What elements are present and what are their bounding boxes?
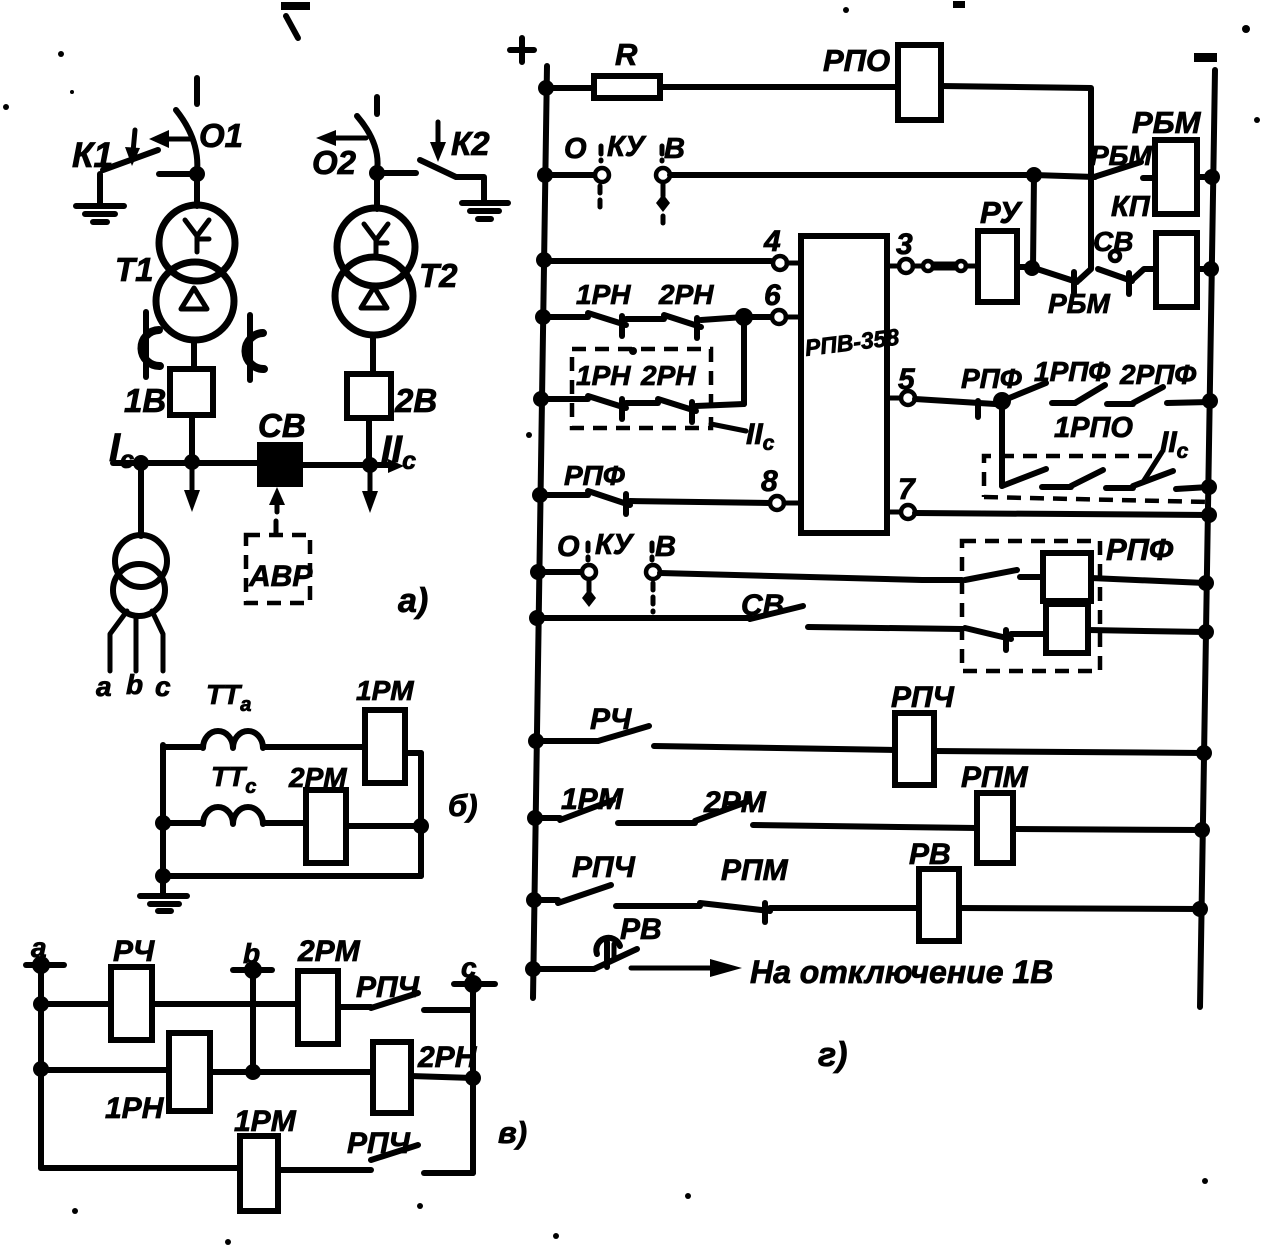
svg-text:Т1: Т1 [115, 251, 154, 288]
wire pin5 to RPF [915, 399, 995, 417]
svg-text:2РМ: 2РМ [703, 786, 767, 819]
rail negative [1200, 70, 1215, 1007]
contact 2PH dashed row [626, 399, 744, 422]
contact RPCh row3 [278, 1145, 473, 1173]
wire row1 mid [152, 1001, 298, 1007]
bus I section [113, 460, 257, 466]
bottom return wire [163, 873, 421, 879]
wire row1 left [41, 1001, 111, 1007]
wire O1 to T1 [194, 174, 200, 206]
svg-text:РБМ: РБМ [1090, 140, 1153, 171]
svg-text:КП: КП [1111, 191, 1151, 223]
contact 2RPF [1107, 387, 1163, 404]
label a) [398, 582, 428, 620]
relay coil 1PM v [240, 1136, 278, 1211]
svg-text:Т2: Т2 [419, 257, 458, 294]
label CB aux [1093, 226, 1133, 257]
wire 2RPF to rail [1167, 393, 1218, 409]
node rail rpch [526, 892, 542, 908]
wire b vertical [250, 970, 256, 1072]
svg-text:1РПО: 1РПО [1054, 412, 1133, 444]
node junction O1 [159, 166, 205, 182]
relay coil RPF2 [1046, 604, 1088, 653]
node b terminal [233, 961, 272, 979]
contact CB no [537, 606, 962, 629]
contact RPF1 self [965, 570, 1043, 580]
label RV coil [909, 838, 951, 871]
relay coil RBM [1155, 140, 1197, 214]
svg-text:РВ: РВ [620, 913, 662, 946]
contact RPCh g2 [534, 885, 700, 906]
wire incoming line 2 [374, 97, 380, 114]
node rail row3 [536, 252, 552, 268]
svg-text:В: В [655, 531, 676, 563]
label 1PH dashed [576, 360, 631, 391]
relay coil KP [1156, 233, 1197, 307]
wire pin7 to rail [915, 507, 1217, 523]
node rail row2 [537, 167, 553, 183]
label RPCh g2 [572, 851, 636, 884]
label RPV-358 [803, 324, 900, 361]
disconnector O2 [316, 116, 378, 171]
label RPF row8 [564, 460, 625, 491]
label 2PM [288, 762, 347, 793]
wire RPF2 to rail [1088, 624, 1214, 640]
svg-text:3: 3 [896, 228, 913, 261]
label RBM coil [1132, 105, 1202, 140]
svg-text:1В: 1В [124, 382, 166, 419]
svg-text:2РН: 2РН [640, 360, 696, 391]
transformer T1 [156, 205, 235, 340]
node bus dot 2B [362, 457, 378, 473]
label 2B [394, 382, 437, 419]
dashed box RPF [962, 541, 1100, 671]
wire RV to rail [959, 901, 1208, 917]
svg-text:О: О [564, 133, 587, 165]
ground b-circuit [140, 876, 187, 911]
pin 3 [887, 228, 913, 273]
label minus [1194, 53, 1217, 62]
pin 7 [887, 473, 916, 519]
label 1PH [105, 1092, 165, 1125]
wire TTc to 2PM [263, 820, 306, 826]
relay coil 2PM v [298, 971, 338, 1044]
node a row2 [33, 1061, 49, 1077]
label b [126, 669, 143, 700]
label KU2 [595, 529, 635, 561]
label 1PM v [234, 1105, 297, 1138]
dashed box 1PH2PH [572, 349, 711, 428]
disconnector O1 [149, 110, 197, 172]
svg-text:1РМ: 1РМ [561, 783, 624, 816]
relay coil 1PM [365, 710, 405, 783]
svg-text:1РМ: 1РМ [356, 675, 414, 706]
breaker 2B [347, 374, 391, 418]
contact 2PM g [695, 801, 977, 828]
label IIc pointer [711, 418, 775, 455]
svg-text:1РМ: 1РМ [234, 1105, 297, 1138]
arrow CB to ABP [269, 487, 285, 533]
svg-text:РПЧ: РПЧ [356, 971, 420, 1004]
label V ku2 [655, 531, 676, 563]
feeder arrow on bus I [184, 463, 200, 512]
pin 4 [763, 225, 801, 270]
arrow to trip [631, 959, 742, 977]
svg-text:b: b [243, 938, 260, 969]
svg-text:b: b [126, 669, 143, 700]
wire row2 mid [210, 1069, 373, 1075]
svg-text:2РН: 2РН [658, 279, 714, 310]
svg-text:РПМ: РПМ [961, 761, 1029, 794]
svg-text:7: 7 [898, 473, 916, 506]
transformer T2 [335, 208, 415, 335]
svg-text:a: a [96, 671, 112, 702]
svg-text:6: 6 [764, 279, 781, 312]
label T1 [115, 251, 154, 288]
svg-text:2РМ: 2РМ [297, 935, 361, 968]
label RPF coils [1106, 532, 1174, 567]
label RPO [823, 43, 890, 78]
svg-text:1РПФ: 1РПФ [1034, 356, 1110, 387]
svg-text:РПЧ: РПЧ [347, 1127, 411, 1160]
label RBM nc [1048, 288, 1111, 319]
wire RPF down [999, 401, 1005, 486]
node row c left [155, 815, 171, 831]
wire c vertical [470, 984, 476, 1173]
relay coil 2PM [306, 790, 346, 863]
contact 1PM g [535, 800, 695, 823]
svg-text:СВ: СВ [741, 589, 784, 622]
connector link [913, 261, 978, 271]
label 2PM g [703, 786, 767, 819]
node a row1 [33, 996, 49, 1012]
label RPCh row1 [356, 971, 420, 1004]
rail positive [533, 66, 547, 998]
node c terminal [454, 975, 495, 993]
label 1RPO [1054, 412, 1133, 444]
wire row2 left [41, 1067, 169, 1073]
node junction O2 [369, 165, 416, 181]
svg-text:АВР: АВР [248, 560, 313, 593]
relay coil PCh [111, 967, 152, 1040]
label TTa [206, 679, 251, 716]
CT hook left of T1 [141, 312, 160, 377]
wire RPCh to rail [934, 745, 1212, 761]
label a [96, 671, 112, 702]
label 2PM v [297, 935, 361, 968]
label v) [498, 1115, 527, 1150]
contact 1PH dashed row [533, 391, 626, 419]
block ABP dashed [246, 535, 310, 603]
wire row1 to R [546, 85, 594, 91]
svg-text:г): г) [818, 1036, 847, 1074]
contact 1RPF [1052, 385, 1105, 403]
svg-text:4: 4 [763, 225, 781, 258]
CT TTa coil [163, 731, 263, 748]
label c node [461, 952, 477, 983]
svg-text:РВ: РВ [909, 838, 951, 871]
label CB [258, 407, 306, 444]
relay coil RPM [977, 793, 1013, 863]
label T2 [419, 257, 458, 294]
svg-text:1РН: 1РН [576, 360, 631, 391]
svg-text:К2: К2 [451, 125, 490, 162]
label CB row [741, 589, 784, 622]
svg-text:5: 5 [898, 363, 916, 396]
label RBM contact [1090, 140, 1153, 171]
label IIc2 [1160, 426, 1189, 463]
CT hook right of T1 [245, 315, 264, 380]
svg-text:РЧ: РЧ [113, 935, 155, 968]
label 2PH dashed [640, 360, 696, 391]
svg-text:2РПФ: 2РПФ [1119, 359, 1196, 390]
label RCh [590, 703, 632, 736]
wire O2 to T2 [374, 173, 380, 209]
svg-text:1РН: 1РН [576, 279, 631, 310]
wire row2 long [670, 172, 1034, 178]
label K2 [451, 125, 490, 162]
wire row2 right [411, 1076, 473, 1078]
svg-text:О1: О1 [199, 117, 243, 154]
node row4 junction [735, 308, 753, 326]
wire T2 to 2B [370, 335, 376, 374]
svg-text:R: R [615, 37, 638, 72]
left vertical b-circuit [160, 745, 166, 876]
svg-text:б): б) [448, 788, 478, 823]
node a terminal [26, 956, 64, 974]
ground K1 [76, 206, 124, 222]
wire ku2 to RPF1 [660, 573, 962, 580]
node rail rch [528, 733, 544, 749]
svg-text:2РМ: 2РМ [288, 762, 347, 793]
svg-text:РЧ: РЧ [590, 703, 632, 736]
wire TTa to 1PM [263, 744, 365, 750]
label R [615, 37, 638, 72]
ground K2 [462, 203, 508, 219]
contact RPF2 nc [965, 628, 1046, 650]
wire KP to rail [1197, 261, 1219, 277]
node c row2 [465, 1070, 481, 1086]
breaker 1B [170, 369, 213, 415]
svg-text:РПФ: РПФ [961, 363, 1022, 394]
label KU1 [607, 131, 647, 163]
wire T1 to 1B [191, 340, 197, 369]
wire 2B to bus [366, 418, 372, 463]
label K1 [72, 136, 113, 175]
label 1PM [356, 675, 414, 706]
svg-text:1РН: 1РН [105, 1092, 165, 1125]
label O ku2 [557, 531, 580, 563]
label RU [980, 195, 1022, 230]
label O ku1 [564, 133, 587, 165]
svg-text:В: В [664, 133, 685, 165]
label RPM [961, 761, 1029, 794]
relay coil RU [978, 231, 1017, 302]
wire row3 to terminal4 [544, 258, 771, 264]
label 1PM g [561, 783, 624, 816]
node row c right [413, 818, 429, 834]
wire RPO to corner [941, 86, 1091, 268]
dashed box 1RPO [984, 456, 1208, 502]
svg-text:На отключение 1В: На отключение 1В [750, 954, 1053, 990]
contact RBM no [1034, 162, 1155, 178]
label O1 [199, 117, 243, 154]
label ABP [248, 560, 313, 593]
svg-text:КУ: КУ [595, 529, 635, 561]
node rail rv [525, 961, 541, 977]
node bus dot 1B [184, 454, 200, 470]
CT TTc coil [163, 807, 263, 824]
label 1PH row4 [576, 279, 631, 310]
contact RPF no [1002, 383, 1046, 401]
contact RBM nc row3 [1034, 268, 1091, 293]
label KP [1111, 191, 1151, 223]
svg-text:СВ: СВ [258, 407, 306, 444]
label RPM nc [721, 854, 789, 887]
breaker CB filled [257, 442, 303, 487]
relay coil RPCh g [895, 713, 934, 785]
wire bus to load transformer [138, 463, 144, 536]
scan mark top [281, 2, 310, 38]
wire R to RPO [660, 84, 898, 90]
svg-text:2РН: 2РН [417, 1041, 478, 1074]
svg-text:8: 8 [761, 465, 778, 498]
relay coil RPO [898, 45, 941, 120]
label RPCh row3 [347, 1127, 411, 1160]
relay coil RV [919, 869, 959, 941]
svg-text:a: a [31, 932, 47, 963]
relay coil 2PH [373, 1042, 411, 1113]
node rail row4 [535, 309, 551, 325]
label Ic [109, 426, 134, 474]
contact 2PH row4 [626, 315, 744, 338]
wire RU out [1017, 260, 1040, 276]
node RPF junction [993, 392, 1011, 410]
resistor R [594, 76, 660, 98]
label 2PH [417, 1041, 478, 1074]
label 2RPF [1119, 359, 1196, 390]
node row2 branch [1026, 167, 1042, 183]
pin 8 [761, 465, 801, 510]
node rail ku2 [530, 564, 546, 580]
switch KU upper [595, 146, 670, 226]
svg-text:РПЧ: РПЧ [891, 681, 955, 714]
relay block RPV-358 [801, 236, 887, 533]
svg-text:c: c [155, 671, 171, 702]
load transformer legs a b c [110, 611, 163, 671]
feeder arrow on bus II [362, 466, 378, 513]
contact RCh [536, 726, 895, 750]
wire row2 to row3 link [1033, 175, 1034, 268]
svg-text:а): а) [398, 582, 428, 620]
svg-text:РПФ: РПФ [1106, 532, 1174, 567]
wire row2 to KU [545, 172, 595, 178]
wire RPM to rail [1013, 822, 1210, 838]
label a node [31, 932, 47, 963]
wire 2PM to right [346, 823, 421, 829]
label RPF t5 [961, 363, 1022, 394]
wire row3 left [41, 1165, 240, 1171]
node rail cb row [529, 610, 545, 626]
contact CB aux row3 [1098, 251, 1156, 294]
wire dashed row up [741, 317, 747, 404]
label 1B [124, 382, 166, 419]
svg-text:О2: О2 [312, 144, 357, 181]
svg-text:в): в) [498, 1115, 527, 1150]
label IIc [381, 429, 416, 475]
load transformer [113, 535, 167, 616]
contact RV timer [533, 938, 637, 969]
contact RPM nc [700, 903, 919, 922]
node rail 1pm [527, 810, 543, 826]
svg-text:2В: 2В [394, 382, 437, 419]
wire RPF1 to rail [1091, 575, 1214, 591]
label b) [448, 788, 478, 823]
earthing switch K2 [420, 122, 484, 200]
svg-text:РБМ: РБМ [1132, 105, 1202, 140]
svg-text:РПМ: РПМ [721, 854, 789, 887]
node b row2 [245, 1064, 261, 1080]
svg-text:РПЧ: РПЧ [572, 851, 636, 884]
label RV contact [620, 913, 662, 946]
label b node [243, 938, 260, 969]
wire incoming line 1 [194, 78, 200, 104]
svg-text:О: О [557, 531, 580, 563]
label Na otklyuchenie 1V [750, 954, 1053, 990]
label 1RPF [1034, 356, 1110, 387]
svg-text:РПО: РПО [823, 43, 890, 78]
svg-text:СВ: СВ [1093, 226, 1133, 257]
node bus dot left [133, 455, 149, 471]
label PCh v [113, 935, 155, 968]
label 2PH row4 [658, 279, 714, 310]
wire 1B to bus [189, 415, 195, 460]
relay coil 1PH [169, 1033, 210, 1111]
svg-text:РПФ: РПФ [564, 460, 625, 491]
label V ku1 [664, 133, 685, 165]
wire a vertical [38, 965, 44, 1168]
svg-text:c: c [461, 952, 477, 983]
contacts 1RPO chain [1002, 452, 1217, 495]
contact RPCh row1 [338, 993, 473, 1010]
svg-text:РУ: РУ [980, 195, 1022, 230]
contact 1PH row4 [543, 313, 626, 336]
svg-text:КУ: КУ [607, 131, 647, 163]
pin 6 [744, 279, 801, 324]
label O2 [312, 144, 357, 181]
node rail row1 [538, 80, 554, 96]
label c [155, 671, 171, 702]
label g) [818, 1036, 847, 1074]
label RPCh g [891, 681, 955, 714]
label plus [510, 38, 534, 62]
node bottom left [155, 868, 171, 884]
contact RPF row8 [540, 491, 770, 514]
pin 5 [887, 363, 916, 405]
switch KU lower [538, 543, 660, 612]
relay coil RPF1 [1043, 553, 1091, 601]
label TTc [211, 761, 256, 798]
wire RBM to rail [1197, 169, 1220, 185]
svg-text:РБМ: РБМ [1048, 288, 1111, 319]
bus II section [303, 459, 404, 473]
earthing switch K1 [100, 130, 158, 203]
node rail row8 [532, 487, 548, 503]
wire 1PM to right [405, 753, 421, 876]
